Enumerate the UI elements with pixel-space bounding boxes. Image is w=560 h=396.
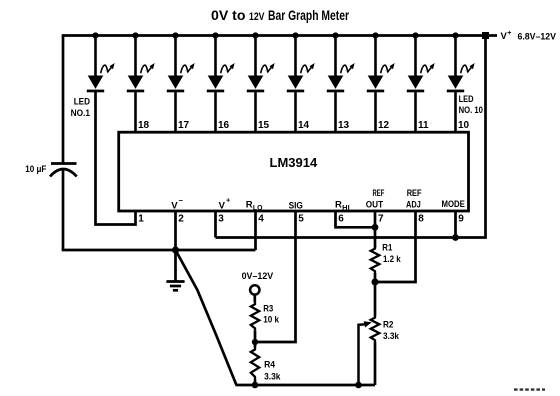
- svg-text:8: 8: [418, 214, 424, 225]
- wire: R2 bottom to bottom rail: [374, 342, 377, 385]
- svg-text:Bar Graph Meter: Bar Graph Meter: [268, 7, 349, 23]
- svg-text:NO.1: NO.1: [71, 108, 91, 119]
- wire: bottom rail: [236, 384, 376, 387]
- svg-text:R1: R1: [382, 243, 392, 253]
- svg-text:R3: R3: [263, 304, 273, 314]
- svg-text:17: 17: [178, 120, 190, 131]
- svg-text:12V: 12V: [249, 11, 265, 23]
- label bottom pin numbers 1..9: [138, 214, 464, 225]
- svg-text:10 μF: 10 μF: [25, 164, 46, 174]
- svg-text:SIG: SIG: [289, 201, 303, 212]
- svg-text:LED: LED: [74, 97, 90, 108]
- svg-text:REF: REF: [407, 188, 422, 199]
- wire: pin 3 V+ stub: [214, 211, 217, 238]
- svg-text:+: +: [507, 30, 511, 37]
- svg-text:R4: R4: [264, 360, 275, 370]
- wire: junction down to R2: [374, 282, 377, 316]
- wire: V+ line from pin3 to right riser up to rail: [216, 36, 486, 238]
- svg-text:ADJ: ADJ: [406, 200, 421, 211]
- svg-text:10: 10: [458, 120, 470, 131]
- svg-text:3.3k: 3.3k: [383, 331, 400, 341]
- wire: LED1 cathode to pin 1: [96, 91, 136, 225]
- svg-text:6: 6: [338, 214, 344, 225]
- svg-text:R: R: [246, 200, 253, 211]
- node junction pin7/pin6: [372, 224, 379, 231]
- node junction R2 wiper bottom: [355, 382, 362, 389]
- svg-text:+: +: [226, 196, 231, 205]
- node junction pin9 on V+ line: [452, 234, 459, 241]
- svg-text:13: 13: [338, 120, 350, 131]
- LED D2: [127, 76, 144, 93]
- LED D5: [247, 76, 264, 93]
- svg-text:V: V: [219, 201, 226, 212]
- svg-text:4: 4: [258, 214, 264, 225]
- svg-text:LO: LO: [253, 205, 263, 212]
- ground: [174, 250, 177, 282]
- svg-text:7: 7: [378, 214, 384, 225]
- LED D10: [447, 76, 464, 93]
- wire: R2 wiper arm to bottom rail: [359, 324, 365, 385]
- svg-text:15: 15: [258, 120, 270, 131]
- wire: top V+ rail: [62, 34, 497, 37]
- svg-text:10 k: 10 k: [263, 315, 280, 325]
- svg-text:3.3k: 3.3k: [264, 372, 281, 382]
- resistor R1 1.2k: [371, 247, 380, 273]
- LED D4: [207, 76, 224, 93]
- svg-text:LED: LED: [459, 94, 474, 105]
- resistor R3 10k: [251, 302, 259, 330]
- svg-text:9: 9: [458, 214, 464, 225]
- IC U1 LM3914 body: [119, 132, 469, 211]
- svg-text:0V–12V: 0V–12V: [242, 271, 274, 281]
- node rail junction dots for LEDs: [92, 32, 458, 38]
- node ground junction: [172, 246, 179, 253]
- node terminal 0V-12V input: [250, 285, 259, 294]
- svg-text:6.8V–12V: 6.8V–12V: [518, 31, 557, 41]
- LED D1: [87, 76, 104, 93]
- svg-text:HI: HI: [342, 205, 350, 212]
- wire: pin 6 RHI stub and link to pin 7: [336, 211, 376, 227]
- svg-text:0V to: 0V to: [211, 7, 246, 23]
- svg-text:MODE: MODE: [442, 199, 465, 210]
- svg-text:−: −: [179, 196, 184, 205]
- wire: pin 5 SIG stub down to divider tap: [255, 211, 296, 342]
- wire: diagonal from ground junction to bottom rail: [176, 250, 237, 385]
- LED D7: [327, 76, 344, 93]
- svg-text:2: 2: [178, 214, 184, 225]
- svg-text:11: 11: [418, 120, 429, 131]
- bottom-right artifact: [514, 388, 545, 390]
- svg-text:R2: R2: [383, 320, 394, 330]
- LED D8: [367, 76, 384, 93]
- wire: ground line from cap to RLO pin 4: [62, 249, 256, 252]
- node V+ rail square junction: [482, 32, 489, 39]
- wire: pin 4 RLO stub: [254, 211, 257, 250]
- wire: R4 to bottom rail: [254, 380, 257, 386]
- capacitor C1 10uF: [62, 36, 65, 164]
- svg-text:1: 1: [138, 214, 144, 225]
- wire: R3 to R4: [254, 330, 257, 347]
- resistor R2 3.3k (rheostat): [371, 316, 380, 342]
- svg-text:1.2 k: 1.2 k: [383, 254, 401, 264]
- wire: pin 7 REF OUT stub: [374, 211, 377, 248]
- node junction R1/R2/pin8: [371, 278, 378, 285]
- label top pin numbers 18..10: [138, 120, 470, 131]
- LED D6: [287, 76, 304, 93]
- node junction R4 bottom: [252, 382, 259, 389]
- wire: LED anode wires from rail: [96, 36, 456, 76]
- svg-text:18: 18: [138, 120, 150, 131]
- svg-text:R: R: [335, 200, 342, 211]
- svg-text:LM3914: LM3914: [270, 155, 318, 170]
- wire: pin 2 V- stub down to ground line: [174, 211, 177, 250]
- wire: LED cathode wires to IC top pins: [136, 91, 456, 132]
- resistor R4 3.3k: [251, 348, 259, 380]
- wire: pin 9 MODE stub: [454, 211, 457, 238]
- LED D9: [407, 76, 424, 93]
- svg-text:14: 14: [298, 120, 310, 131]
- node junction SIG tap: [252, 339, 258, 345]
- wire: R1 bottom to junction: [374, 273, 377, 282]
- svg-text:OUT: OUT: [366, 200, 383, 211]
- LED D3: [167, 76, 184, 93]
- wire: terminal to R3: [253, 295, 256, 303]
- wire: pin 8 REF ADJ stub down to R1/R2 junction: [375, 211, 416, 282]
- svg-text:12: 12: [378, 120, 390, 131]
- svg-text:REF: REF: [373, 188, 385, 199]
- svg-text:5: 5: [298, 214, 304, 225]
- svg-text:V: V: [171, 201, 178, 212]
- svg-text:3: 3: [218, 214, 224, 225]
- svg-text:NO. 10: NO. 10: [459, 105, 483, 116]
- svg-text:16: 16: [218, 120, 230, 131]
